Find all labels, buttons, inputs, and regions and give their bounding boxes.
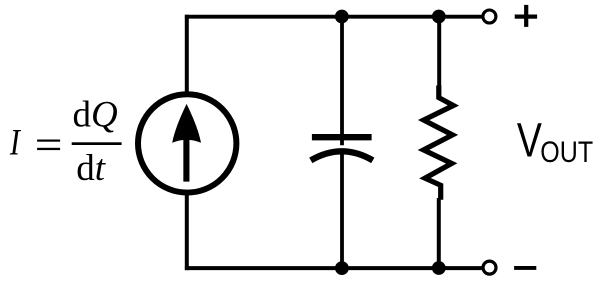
- terminal + output open circle: [483, 10, 496, 23]
- wire capacitor branch bottom: [340, 152, 344, 268]
- capacitor C1 top plate: [312, 134, 372, 140]
- plus sign: [515, 5, 537, 27]
- wire left vertical bottom (current source to rail): [185, 191, 189, 270]
- terminal - output open circle: [483, 261, 496, 274]
- wire resistor branch bottom: [437, 198, 441, 268]
- wire left vertical top (rail to current source): [185, 15, 189, 95]
- equals sign: [37, 140, 60, 142]
- svg-text:OUT: OUT: [540, 136, 593, 169]
- wire capacitor branch top: [340, 17, 344, 146]
- junction dot bottom capacitor node: [335, 261, 349, 275]
- wire resistor branch top: [437, 17, 441, 87]
- wire top rail: [185, 15, 483, 19]
- wire bottom rail: [185, 266, 482, 270]
- current source arrow shaft: [183, 139, 189, 182]
- junction dot bottom resistor node: [432, 261, 446, 275]
- current source U1 circle: [138, 94, 236, 192]
- fraction bar: [72, 142, 122, 145]
- svg-text:I: I: [9, 122, 21, 163]
- svg-text:dt: dt: [76, 148, 107, 189]
- junction dot top capacitor node: [335, 10, 349, 24]
- minus sign: [514, 266, 536, 270]
- current source arrow head: [172, 104, 201, 143]
- capacitor C1 bottom curved plate: [311, 151, 373, 160]
- svg-text:V: V: [517, 115, 542, 168]
- resistor R1 zigzag: [424, 86, 454, 200]
- junction dot top resistor node: [432, 10, 446, 24]
- svg-text:dQ: dQ: [73, 95, 119, 136]
